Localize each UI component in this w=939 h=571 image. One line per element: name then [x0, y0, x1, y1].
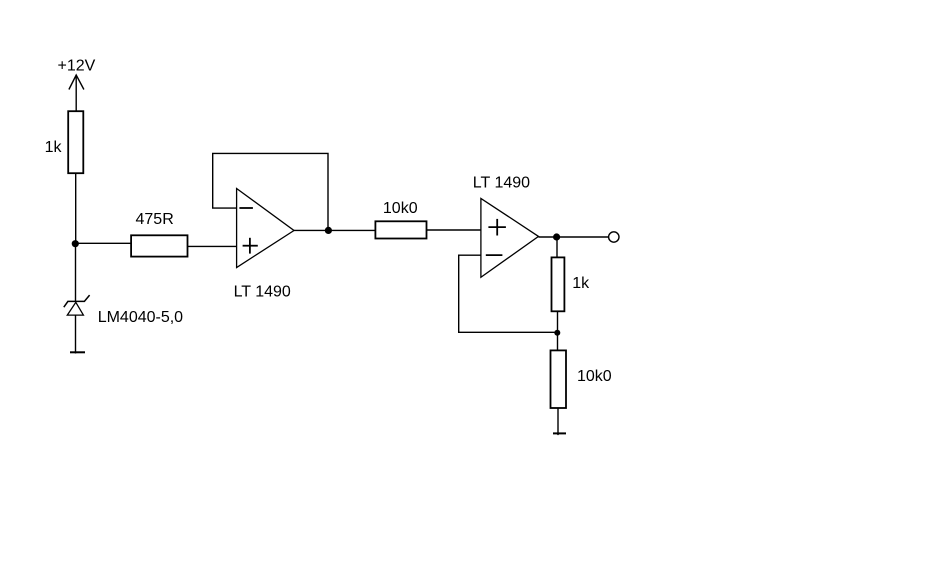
- wire resistor 10k0 to op-amp U2 + input: [427, 229, 481, 231]
- svg-text:+12V: +12V: [58, 58, 96, 75]
- resistor 1k (vertical, top-left): [68, 111, 83, 173]
- ground (right): [553, 432, 566, 434]
- op-amp U2 minus sign: [486, 254, 503, 256]
- wire resistor 10k0 to ground (right): [557, 408, 559, 435]
- feedback wire U2: minus input, down and around to node D: [459, 255, 558, 332]
- output terminal (open circle): [609, 232, 619, 242]
- wire from +12V arrow to R 1k: [75, 75, 77, 111]
- op-amp U2 plus sign: [488, 219, 506, 236]
- op-amp U1 plus sign: [243, 238, 258, 254]
- svg-text:LT 1490: LT 1490: [473, 175, 530, 192]
- node C (U2 output junction dot): [553, 233, 560, 240]
- svg-text:LT 1490: LT 1490: [234, 284, 291, 301]
- node A (junction dot): [72, 240, 79, 247]
- node B (U1 output junction dot): [325, 227, 332, 234]
- op-amp U1 minus sign: [239, 207, 253, 209]
- svg-text:475R: 475R: [136, 211, 174, 228]
- wire resistor 1k to node D: [557, 311, 559, 350]
- node D (feedback junction dot): [554, 330, 560, 336]
- svg-text:10k0: 10k0: [383, 200, 418, 217]
- power +12V arrow: [69, 75, 84, 90]
- svg-text:1k: 1k: [45, 139, 63, 156]
- resistor 10k0 (vertical, bottom-right): [551, 350, 567, 408]
- wire node A to zener: [75, 244, 77, 302]
- resistor 1k (vertical, right): [552, 257, 565, 311]
- wire node C down to resistor 1k (right): [556, 237, 558, 257]
- zener diode LM4040 anode triangle: [67, 302, 83, 315]
- resistor 10k0 (series): [375, 221, 426, 238]
- svg-text:LM4040-5,0: LM4040-5,0: [98, 309, 183, 326]
- wire op-amp U1 output to resistor 10k0: [294, 229, 375, 231]
- resistor 475R: [131, 235, 187, 256]
- wire op-amp U2 output to terminal: [539, 236, 609, 238]
- svg-text:10k0: 10k0: [577, 368, 612, 385]
- svg-text:1k: 1k: [572, 275, 590, 292]
- wire zener to ground: [75, 315, 77, 353]
- feedback wire U1: minus input, up, over the top, down to output node: [213, 153, 328, 230]
- wire resistor 475R to op-amp U1 + input: [188, 245, 237, 247]
- wire node A to resistor 475R: [75, 242, 131, 244]
- wire from R 1k to node A: [75, 173, 77, 243]
- zener diode LM4040 cathode bar: [64, 295, 90, 307]
- op-amp U2 triangle: [481, 198, 539, 277]
- op-amp U1 triangle: [237, 189, 294, 268]
- ground (left): [70, 351, 85, 353]
